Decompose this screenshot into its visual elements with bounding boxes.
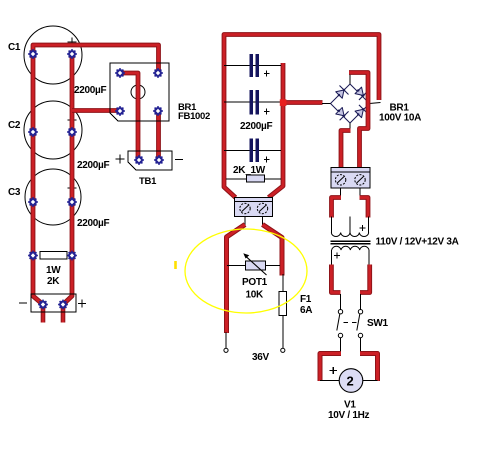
connector plus mark [78,300,86,308]
wire: thin lead below middle TB left [244,217,246,226]
resistor 2K_1W (middle) [247,175,265,182]
wire: red transformer secondary left down [331,265,340,293]
wire: BR1 top-left pad to TB1 left pad [120,73,138,160]
capacitor C3 polarity + [68,184,77,193]
svg-text:V1: V1 [344,400,356,411]
C1 pad left [28,49,38,59]
resistor pad right [67,251,77,261]
bridge BR1 FB1002 package [110,63,169,121]
BR1 pad bottom-right [153,106,163,116]
connector minus mark [19,302,27,304]
wire: feed to bridge left vertex [281,100,323,105]
wire: thin lead capacitor row 2 [224,101,281,103]
screw right (right TB) [355,175,365,185]
C3 pad right [67,197,77,207]
primary lead left [330,217,332,234]
wire: thin lead to SW1 right [360,294,362,310]
wire: main + rail (left vertical, top, down to bridge +) [224,35,379,198]
wire: thin lead lamp right [363,380,378,382]
wire: thin lead fuse top [282,274,284,292]
svg-text:2K: 2K [47,276,60,287]
capacitor C1 polarity + [68,38,77,47]
wire: thin stub bridge left vertex [322,103,331,105]
primary lead right [368,217,370,234]
potentiometer POT1 [246,261,266,270]
C3 pad left [28,197,38,207]
wire: capacitor bank negative vertical [269,63,284,198]
transformer T1 [331,217,371,266]
yellow highlight ellipse [185,229,307,313]
svg-text:C3: C3 [8,187,21,198]
terminal block TB1 [128,151,172,170]
wire: thin lead below middle TB right [262,217,264,226]
wire: thin lead capacitor row 1 [224,65,281,67]
capacitor row 3 polarity + [264,157,270,163]
svg-text:SW1: SW1 [367,318,389,329]
wire: thin lead resistor row [226,178,281,180]
wire: thin lead below right TB left [340,188,342,198]
svg-text:110V / 12V+12V 3A: 110V / 12V+12V 3A [376,237,459,248]
BR1 pad bottom-left [115,106,125,116]
capacitor C1 outline [24,26,82,84]
wire: red transformer secondary right down [360,265,370,293]
screw left (right TB) [335,175,345,185]
yellow mark [174,261,177,269]
diode D3 bottom-left [336,107,349,120]
capacitor row 2 polarity + [264,109,270,115]
wire: bridge AC1 (top vertex) to TB right [349,73,368,169]
wire: thin lead below right TB right [359,188,361,198]
diode D2 top-right [355,87,368,100]
terminal left 36V [224,348,228,352]
svg-text:36V: 36V [252,352,270,363]
wire: connector stub left [41,305,46,323]
svg-text:POT1: POT1 [242,277,268,288]
screw left (middle TB) [240,203,250,213]
junction at capacitor bank [280,99,287,106]
BR1 pad top-left [115,68,125,78]
connector pad right [58,300,68,310]
svg-text:100V 10A: 100V 10A [379,113,421,124]
wire: red diagonal to POT left [227,225,246,334]
wire: BR1 bottom-right pad to TB1 right pad [156,111,161,160]
secondary lead right [368,250,370,265]
svg-text:10K: 10K [246,290,265,301]
secondary polarity + [334,253,340,259]
svg-text:2200µF: 2200µF [77,160,110,171]
svg-text:2K_1W: 2K_1W [233,165,266,176]
secondary winding [332,246,369,250]
diode D4 bottom-right [355,105,368,118]
capacitor plates row 2 [250,90,260,115]
terminal right 36V [281,348,285,352]
primary polarity + [360,225,366,231]
C2 pad left [28,127,38,137]
wire: left PCB left vertical trace [33,50,43,305]
svg-text:2200µF: 2200µF [74,85,107,96]
TB1 plus mark [116,155,125,164]
wire: thin lead fuse bottom [282,316,284,349]
wire: thin lead to left 36V terminal [225,332,227,349]
svg-text:2: 2 [347,374,354,389]
wire: bridge AC2 (bottom vertex) to TB left [341,131,351,169]
resistor 2K 1W (left column) [40,252,67,260]
wire: thin lead SW1 left bottom [340,338,342,353]
BR1 pad top-right [153,68,163,78]
terminal block (transformer primary) [331,168,370,189]
capacitor plates row 1 [250,54,260,77]
capacitor C3 outline [25,169,81,225]
capacitor row 1 polarity + [264,71,270,77]
secondary lead left [331,250,333,265]
wire: branch to BR1 lower-left pad [72,108,120,113]
wire: left PCB right vertical trace [63,54,72,305]
svg-text:6A: 6A [300,305,312,316]
lamp polarity + [330,367,338,374]
switch SW1 [337,310,363,338]
terminal block (middle, 36V output) [235,198,273,217]
wire: red to lamp left [320,354,341,382]
wire: red to transformer primary left [332,198,342,218]
wire: red to lamp right [360,354,378,382]
svg-text:2200µF: 2200µF [240,121,273,132]
wire: connector stub right [61,305,66,323]
C1 pad right [67,49,77,59]
wire: red to transformer primary right [360,198,369,218]
TB1 pad right [154,155,164,165]
wire: thin lead through POT1 [227,265,280,267]
lamp V1 [339,369,363,393]
capacitor plates row 3 [250,139,260,163]
POT1 wiper arrow [243,253,266,275]
wire: thin stub bridge top vertex [349,73,351,84]
svg-text:2200µF: 2200µF [77,218,110,229]
wire: thin stub bridge right vertex [370,103,381,104]
svg-text:F1: F1 [300,294,312,305]
primary center tap [349,217,351,233]
connector (left column bottom) [31,294,76,312]
diode D1 top-left [336,86,349,99]
svg-text:1W: 1W [46,265,61,276]
fuse F1 [279,292,286,316]
C2 pad right [67,127,77,137]
svg-text:FB1002: FB1002 [178,111,210,122]
svg-text:TB1: TB1 [139,176,157,187]
bridge rectifier BR1 (right) diamond [331,84,370,123]
screw right (middle TB) [257,203,267,213]
TB1 pad left [134,155,144,165]
core lines [331,240,371,242]
capacitor C2 outline [24,101,82,159]
resistor pad left [28,251,38,261]
TB1 minus mark [175,159,183,161]
wire: thin lead SW1 right bottom [360,338,362,353]
wire: left PCB top trace from C1 to BR1 pad [33,45,159,73]
connector pad left [38,300,48,310]
svg-text:10V / 1Hz: 10V / 1Hz [328,410,370,421]
svg-text:C2: C2 [8,120,21,131]
wire: thin lead lamp left [320,380,340,382]
wire: thin lead to SW1 left [340,294,342,310]
wire: thin stub bridge bottom vertex [349,123,351,131]
wire: thin lead capacitor row 3 [224,150,281,152]
svg-text:C1: C1 [8,42,21,53]
capacitor C2 polarity + [68,116,77,125]
primary winding [331,233,368,237]
wire: red diagonal to fuse right [263,225,283,276]
BR1 package circle [131,85,145,99]
